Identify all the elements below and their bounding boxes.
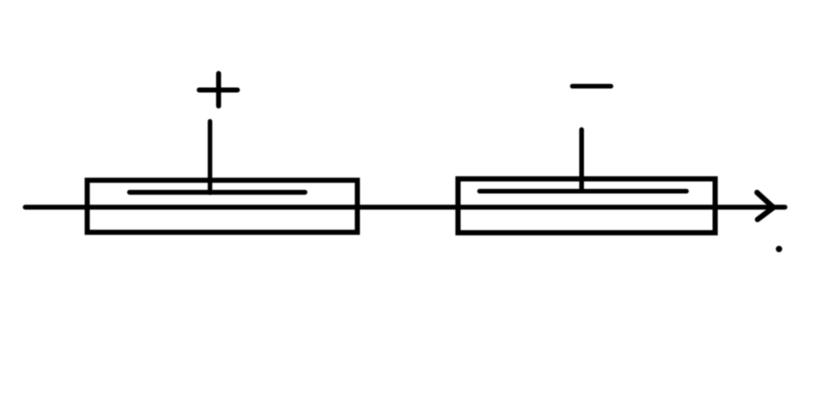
minus polarity label of B2 xyxy=(572,84,611,89)
battery cell B1 box xyxy=(87,180,357,232)
wire B1 positive terminal stem xyxy=(208,121,213,193)
battery cell B2 inner plate line xyxy=(480,189,687,194)
dot node marker xyxy=(776,246,782,252)
arrowhead current direction xyxy=(757,193,774,220)
wire main horizontal line xyxy=(25,205,785,210)
plus polarity label of B1 xyxy=(199,74,237,107)
battery cell B2 box xyxy=(458,179,715,233)
wire B2 negative terminal stem xyxy=(579,130,584,189)
battery cell B1 inner plate line xyxy=(130,190,306,195)
